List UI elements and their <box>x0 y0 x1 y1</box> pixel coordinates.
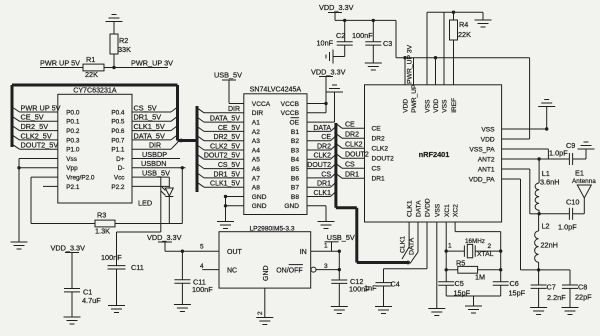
svg-text:DIR: DIR <box>252 110 264 117</box>
ground (nRF VSS right) <box>538 100 555 107</box>
svg-text:C5: C5 <box>455 279 464 288</box>
svg-text:DOUT2: DOUT2 <box>372 156 395 163</box>
svg-text:R2: R2 <box>119 36 128 45</box>
wire nRF VSS top pins to ground <box>427 12 483 85</box>
svg-text:P0.5: P0.5 <box>111 119 125 126</box>
ground (C2, rotated) <box>326 50 333 64</box>
ground (C8) <box>562 308 579 315</box>
svg-text:22K: 22K <box>85 70 98 79</box>
wire Vss/Vpp to ground <box>17 159 58 243</box>
ground (top of R2) <box>106 15 123 35</box>
svg-text:DATA_5V: DATA_5V <box>134 131 165 140</box>
svg-text:P2.2: P2.2 <box>111 184 125 191</box>
svg-text:GND: GND <box>252 194 267 201</box>
svg-text:C6: C6 <box>510 279 519 288</box>
svg-text:10nF: 10nF <box>317 39 334 48</box>
svg-text:P1.1: P1.1 <box>111 147 125 154</box>
svg-text:VCCB: VCCB <box>281 110 300 117</box>
svg-text:P0.6: P0.6 <box>111 128 125 135</box>
wire XC2 to crystal <box>455 222 502 282</box>
ground (C13) <box>174 305 191 312</box>
ground (LP2980 GND) <box>256 318 273 325</box>
svg-text:ANT1: ANT1 <box>478 166 495 173</box>
ground (C4) <box>375 307 392 314</box>
svg-text:OE: OE <box>289 120 299 127</box>
wire R1 to PWR_UP 3V <box>104 67 168 69</box>
svg-text:XC2: XC2 <box>453 204 460 217</box>
bus (left of CY7C63231A) <box>11 85 14 147</box>
ground (C12) <box>331 307 348 314</box>
ground (nRF VSS top) <box>475 20 492 27</box>
wire/net USBDN <box>132 159 186 169</box>
inductor L1 3.6nH <box>535 159 559 216</box>
wire XC1 to crystal <box>445 222 448 282</box>
svg-text:C10: C10 <box>566 198 579 207</box>
wire P2.1 stub <box>43 185 58 187</box>
svg-text:CLK1: CLK1 <box>407 200 414 217</box>
svg-text:CE: CE <box>372 126 382 133</box>
svg-text:XTAL: XTAL <box>477 251 494 258</box>
svg-text:IN: IN <box>300 249 307 256</box>
svg-text:D+: D+ <box>116 156 125 163</box>
wire nRF VDD right to rail <box>502 58 530 139</box>
svg-text:B4: B4 <box>291 157 299 164</box>
wire CLK1 pin to bus <box>400 222 410 259</box>
svg-text:PWR UP 5V: PWR UP 5V <box>40 59 80 68</box>
wire/net DR1_5V (CY right) <box>132 113 178 122</box>
capacitor C1 4.7uF <box>64 288 101 318</box>
svg-text:CLK2: CLK2 <box>345 142 363 149</box>
svg-text:USB_5V: USB_5V <box>327 233 355 242</box>
capacitor C11 100nF <box>101 232 144 306</box>
wire/net CLK2 (4245 B side) <box>307 153 336 160</box>
svg-text:ANT2: ANT2 <box>478 156 495 163</box>
svg-text:22nH: 22nH <box>541 241 558 250</box>
svg-text:VDD: VDD <box>433 99 440 113</box>
svg-text:VDD: VDD <box>403 99 410 113</box>
svg-text:22K: 22K <box>458 30 471 39</box>
svg-text:VSS: VSS <box>425 99 432 113</box>
wire/net DATA (4245 B side) <box>307 125 336 132</box>
wire LP2980 GND pin <box>264 288 266 317</box>
ground (C1) <box>64 317 81 324</box>
svg-text:R3: R3 <box>97 211 106 220</box>
svg-text:DIR: DIR <box>228 106 240 113</box>
svg-text:DATA: DATA <box>416 200 423 217</box>
svg-text:LP2980IM5-3.3: LP2980IM5-3.3 <box>249 225 294 232</box>
wire/net CLK2 (nRF left) <box>336 142 365 149</box>
svg-text:R5: R5 <box>456 259 465 268</box>
wire/net PWR UP 5V (CY left) <box>12 103 61 112</box>
svg-text:DVDD: DVDD <box>425 198 432 217</box>
power USB_5V (4245 VCCA) <box>214 71 244 104</box>
svg-text:1: 1 <box>448 243 452 250</box>
svg-text:2: 2 <box>488 243 492 250</box>
wire R3 to pullup node <box>115 223 182 225</box>
inductor L2 22nH <box>535 214 558 270</box>
wire C5/C6 common to ground <box>446 296 501 306</box>
wire/net CLK2_5V (4245 A side) <box>197 143 244 150</box>
svg-text:33K: 33K <box>118 45 131 54</box>
svg-text:CE: CE <box>345 122 355 129</box>
ground (4245 OE) <box>307 85 343 122</box>
svg-text:1nF: 1nF <box>364 284 377 293</box>
svg-text:DOUT2_5V: DOUT2_5V <box>21 141 59 150</box>
wire nRF VSS right to ground <box>502 107 549 131</box>
svg-text:A4: A4 <box>252 147 260 154</box>
LED D1 <box>138 177 173 223</box>
power USB_5V (LP2980 IN) <box>325 233 355 251</box>
svg-text:CY7C63231A: CY7C63231A <box>73 87 117 95</box>
svg-text:DR1: DR1 <box>317 181 331 188</box>
svg-text:2.2nF: 2.2nF <box>547 293 566 302</box>
wire IN / ON-OFF net <box>311 250 341 272</box>
svg-text:4.7uF: 4.7uF <box>82 296 101 305</box>
svg-text:C2: C2 <box>336 31 345 40</box>
svg-text:15pF: 15pF <box>509 289 526 298</box>
wire ANT2 <box>502 157 570 160</box>
svg-text:CS: CS <box>321 171 331 178</box>
value label C10 1.0pF <box>558 223 577 232</box>
wire VDD rail to PWR_UP rail <box>396 20 530 59</box>
wire PWR UP 5V <box>40 67 83 69</box>
capacitor C2 10nF <box>317 20 353 56</box>
svg-text:VDD_3.3V: VDD_3.3V <box>51 244 86 253</box>
bus (CLK/DATA between 4245 and nRF2401) <box>336 123 410 264</box>
wire/net DOUT2 (4245 B side) <box>307 162 336 169</box>
bus (top of CY7C63231A) <box>12 84 178 87</box>
capacitor C3 100nF <box>352 20 392 63</box>
capacitor C10 1.0pF <box>539 198 584 220</box>
svg-text:VDD_3.3V: VDD_3.3V <box>147 233 182 242</box>
svg-text:3.6nH: 3.6nH <box>540 178 559 187</box>
wire ANT1 <box>502 169 539 214</box>
capacitor C9 1.0pF <box>549 141 586 165</box>
capacitor C13 100nF <box>174 251 213 304</box>
net label PWR_UP 3V <box>131 59 173 68</box>
bus jog to 4245 bus <box>178 139 198 143</box>
svg-text:Antenna: Antenna <box>572 178 596 185</box>
wire/net USBDP <box>132 150 180 159</box>
wire/net CE_5V (CY left) <box>12 113 58 122</box>
node PWR_UP junction <box>112 66 115 69</box>
svg-text:A6: A6 <box>252 166 260 173</box>
wire/net DIR (CY right) <box>132 142 178 150</box>
svg-text:VSS: VSS <box>442 99 449 113</box>
svg-text:P0.7: P0.7 <box>111 137 125 144</box>
svg-text:USBDP: USBDP <box>142 150 167 159</box>
resistor R2 <box>110 34 131 54</box>
wire nRF VDD/PWR_UP top pins <box>405 58 436 85</box>
svg-text:VDD_3.3V: VDD_3.3V <box>319 3 354 12</box>
svg-text:CLK2: CLK2 <box>313 153 331 160</box>
svg-text:A1: A1 <box>252 120 260 127</box>
svg-text:VSS: VSS <box>434 203 441 217</box>
wire/net DATA_5V (4245 A side) <box>197 116 244 123</box>
wire/net DR1_5V (4245 A side) <box>197 171 244 178</box>
svg-text:5: 5 <box>200 244 204 251</box>
svg-text:DR1_5V: DR1_5V <box>134 113 162 122</box>
svg-text:GND: GND <box>252 203 267 210</box>
svg-text:4: 4 <box>200 263 204 270</box>
svg-text:P2.1: P2.1 <box>66 184 80 191</box>
svg-text:2: 2 <box>257 311 264 315</box>
wire/net DR1 (nRF left) <box>336 172 365 179</box>
svg-text:P0.2: P0.2 <box>66 128 80 135</box>
wire/net DOUT2_5V (CY left) <box>12 141 58 150</box>
svg-text:DOUT2: DOUT2 <box>307 162 331 169</box>
svg-text:R4: R4 <box>459 20 468 29</box>
wire/net CLK1_5V (4245 A side) <box>197 181 244 188</box>
svg-text:CLK2_5V: CLK2_5V <box>210 143 240 150</box>
svg-text:USB_5V: USB_5V <box>142 169 170 178</box>
resistor R1 <box>83 55 104 79</box>
svg-text:CLK1: CLK1 <box>400 236 407 253</box>
svg-text:16MHz: 16MHz <box>465 238 485 245</box>
svg-text:USBDN: USBDN <box>141 159 167 168</box>
svg-text:A7: A7 <box>252 175 260 182</box>
svg-text:100nF: 100nF <box>101 253 122 262</box>
svg-text:B2: B2 <box>291 138 299 145</box>
svg-text:100nF: 100nF <box>192 285 213 294</box>
svg-text:C9: C9 <box>566 141 575 150</box>
wire/net CE (nRF left) <box>336 122 365 129</box>
wire/net DOUT2_5V (4245 A side) <box>197 153 244 160</box>
wire/net CLK1_5V (CY right) <box>132 122 178 131</box>
svg-text:VSS_PA: VSS_PA <box>469 146 495 153</box>
svg-text:C11: C11 <box>131 263 144 272</box>
LP2980 ON/OFF bubble <box>311 267 316 272</box>
svg-text:Vpp: Vpp <box>66 165 78 172</box>
wire OUT net <box>165 250 219 253</box>
svg-text:VDD_3.3V: VDD_3.3V <box>311 68 346 77</box>
svg-text:XC1: XC1 <box>444 204 451 217</box>
wire 4245 right GND pin to ground <box>307 206 326 222</box>
wire/net CE_5V (4245 A side) <box>197 125 244 132</box>
svg-text:B8: B8 <box>291 194 299 201</box>
svg-text:C8: C8 <box>578 283 587 292</box>
svg-text:DR1: DR1 <box>372 176 386 183</box>
wire nRF VSS bottom to ground <box>436 222 438 309</box>
svg-text:DR1_5V: DR1_5V <box>214 171 241 178</box>
bus (left of 4245) <box>196 106 199 192</box>
svg-text:VCCB: VCCB <box>281 101 300 108</box>
svg-text:P0.3: P0.3 <box>66 137 80 144</box>
svg-text:USB_5V: USB_5V <box>214 71 242 80</box>
wire/net DR2_5V (4245 A side) <box>197 134 244 141</box>
svg-text:C7: C7 <box>547 283 556 292</box>
IC U1 SN74LVC4245A <box>244 86 307 215</box>
svg-text:CE_5V: CE_5V <box>218 125 241 132</box>
ground (4245 GND left) <box>217 222 234 229</box>
ground (C9, inverted) <box>578 142 595 149</box>
wire Vcc net to C11 <box>117 177 161 232</box>
wire DATA pin to bus <box>409 222 419 264</box>
svg-text:E1: E1 <box>575 169 584 178</box>
capacitor C7 2.2nF <box>531 270 567 308</box>
svg-text:CE: CE <box>321 134 331 141</box>
wire/net CS_5V (4245 A side) <box>197 162 244 169</box>
svg-text:CLK2_5V: CLK2_5V <box>21 131 52 140</box>
ground (C3) <box>365 63 382 70</box>
wire R2 bottom to node <box>113 54 115 68</box>
svg-text:1: 1 <box>324 243 328 250</box>
wire VSS_PA <box>502 149 549 159</box>
svg-text:CLK2: CLK2 <box>372 146 389 153</box>
svg-text:VSS: VSS <box>481 126 495 133</box>
ground (4245 GND right) <box>318 222 335 229</box>
svg-text:IREF: IREF <box>451 98 458 113</box>
resistor R3 <box>95 211 115 236</box>
svg-text:PWR_UP: PWR_UP <box>411 84 418 113</box>
svg-text:3: 3 <box>324 263 328 270</box>
svg-text:D-: D- <box>118 165 125 172</box>
svg-text:DATA: DATA <box>313 125 331 132</box>
svg-text:DR2: DR2 <box>345 132 359 139</box>
net label PWR UP 5V <box>40 59 80 68</box>
svg-text:CS_5V: CS_5V <box>134 103 157 112</box>
svg-text:CLK1: CLK1 <box>313 190 331 197</box>
svg-text:VDD_PA: VDD_PA <box>469 176 495 183</box>
svg-text:LED: LED <box>138 199 152 208</box>
wire P2.2 to LED <box>132 185 169 187</box>
svg-text:DR2: DR2 <box>317 143 331 150</box>
svg-text:ON/OFF: ON/OFF <box>276 267 302 274</box>
svg-text:B7: B7 <box>291 185 299 192</box>
resistor R5 1M <box>446 259 501 282</box>
svg-text:P0.0: P0.0 <box>66 109 80 116</box>
power VDD_3.3V (LP2980 OUT) <box>147 233 182 251</box>
svg-text:B1: B1 <box>291 129 299 136</box>
svg-text:22pF: 22pF <box>575 293 592 302</box>
svg-text:CS: CS <box>372 166 382 173</box>
svg-text:A3: A3 <box>252 138 260 145</box>
svg-text:100nF: 100nF <box>352 31 373 40</box>
wire VDD rail top <box>335 19 396 22</box>
svg-text:DATA: DATA <box>409 237 416 255</box>
svg-text:nRF2401: nRF2401 <box>419 150 450 159</box>
svg-text:PWR_UP 3V: PWR_UP 3V <box>131 59 173 68</box>
ground (nRF VSS bottom) <box>428 309 445 316</box>
svg-text:C3: C3 <box>383 39 392 48</box>
IC U4 nRF2401 <box>365 84 502 222</box>
wire/net DATA_5V (CY right) <box>132 131 178 140</box>
capacitor C6 15pF <box>493 279 526 298</box>
wire/net CS (4245 B side) <box>307 171 336 178</box>
wire/net CLK2_5V (CY left) <box>12 131 58 140</box>
capacitor C8 22pF <box>539 270 593 308</box>
svg-text:CS_5V: CS_5V <box>218 162 241 169</box>
svg-text:DOUT2: DOUT2 <box>345 152 369 159</box>
svg-text:DIR: DIR <box>149 143 161 150</box>
resistor R4 22K <box>450 11 472 85</box>
svg-text:DATA_5V: DATA_5V <box>210 116 240 123</box>
svg-text:CLK1_5V: CLK1_5V <box>210 181 240 188</box>
svg-text:B6: B6 <box>291 175 299 182</box>
wire/net CS (nRF left) <box>336 162 365 169</box>
svg-text:Vss: Vss <box>66 156 77 163</box>
wire/net DIR (4245 A side) <box>197 106 244 113</box>
svg-text:PWR_UP 3V: PWR_UP 3V <box>407 44 414 84</box>
svg-text:1.3K: 1.3K <box>95 227 110 236</box>
svg-text:GND: GND <box>263 265 270 281</box>
svg-text:B3: B3 <box>291 147 299 154</box>
svg-text:GND: GND <box>284 203 299 210</box>
capacitor C5 15pF <box>438 279 470 298</box>
wire/net DR2_5V (CY left) <box>12 122 58 131</box>
svg-text:P0.1: P0.1 <box>66 119 80 126</box>
IC U2 CY7C63231A <box>58 87 132 204</box>
capacitor C4 1nF <box>364 269 400 307</box>
svg-text:L2: L2 <box>542 222 550 231</box>
svg-text:1M: 1M <box>475 273 485 282</box>
svg-text:DR1: DR1 <box>345 172 359 179</box>
wire 4245 left GND pins to ground <box>224 195 244 222</box>
crystal Y1 16MHz <box>446 238 501 258</box>
wire/net DOUT2 (nRF left) <box>336 152 369 159</box>
wire Vreg/P2.0 to R3 <box>31 177 95 223</box>
svg-text:P1.0: P1.0 <box>66 147 80 154</box>
ground (CY Vss) <box>11 242 28 249</box>
wire NC stub <box>202 269 219 271</box>
svg-text:OUT: OUT <box>227 249 243 256</box>
wire/net CE (4245 B side) <box>307 134 336 141</box>
wire/net DR1 (4245 B side) <box>307 181 336 188</box>
svg-text:A2: A2 <box>252 129 260 136</box>
ground (crystal caps) <box>465 306 482 313</box>
svg-text:A5: A5 <box>252 157 260 164</box>
svg-text:DR2_5V: DR2_5V <box>21 122 49 131</box>
wire/net DR2 (4245 B side) <box>307 143 336 150</box>
wire DVDD to C4 <box>384 222 428 269</box>
bus (right of CY7C63231A) <box>176 85 179 141</box>
svg-text:C4: C4 <box>391 280 400 289</box>
antenna E1 <box>572 169 596 214</box>
svg-text:Vcc: Vcc <box>114 175 125 182</box>
svg-text:PWR UP 5V: PWR UP 5V <box>21 103 61 112</box>
svg-text:DOUT2_5V: DOUT2_5V <box>204 153 241 160</box>
wire/net CLK1 (4245 B side) <box>307 190 336 197</box>
svg-text:CS: CS <box>345 162 355 169</box>
wire/net CS_5V (CY right) <box>132 103 178 112</box>
svg-text:CLK1_5V: CLK1_5V <box>134 122 165 131</box>
svg-text:VCCA: VCCA <box>252 101 271 108</box>
net label PWR_UP 3V (rotated) <box>407 44 414 84</box>
svg-text:SN74LVC4245A: SN74LVC4245A <box>250 86 302 94</box>
wire/net USB_5V (CY Vcc) <box>132 169 170 178</box>
ground (C7) <box>530 308 547 315</box>
power VDD_3.3V (C2/C3 rail) <box>319 3 354 20</box>
svg-text:P0.4: P0.4 <box>111 109 125 116</box>
svg-text:CE_5V: CE_5V <box>21 113 44 122</box>
svg-text:Vreg/P2.0: Vreg/P2.0 <box>66 175 95 182</box>
svg-text:A8: A8 <box>252 185 260 192</box>
svg-text:1.0pF: 1.0pF <box>558 223 577 232</box>
ground (C11) <box>108 306 125 313</box>
wire VDD_PA <box>502 179 541 272</box>
svg-text:VDD: VDD <box>481 136 495 143</box>
svg-text:R1: R1 <box>86 55 95 64</box>
svg-text:DR2: DR2 <box>372 136 386 143</box>
svg-text:B5: B5 <box>291 166 299 173</box>
capacitor C12 100nF <box>331 270 370 307</box>
svg-text:DR2_5V: DR2_5V <box>214 134 241 141</box>
wire D- pullup (USBDN to R3 net) <box>181 168 183 224</box>
svg-text:NC: NC <box>227 267 237 274</box>
power VDD_3.3V (4245 VCCB) <box>307 68 346 113</box>
wire/net DR2 (nRF left) <box>336 132 365 139</box>
power VDD_3.3V (C1) <box>51 244 86 289</box>
